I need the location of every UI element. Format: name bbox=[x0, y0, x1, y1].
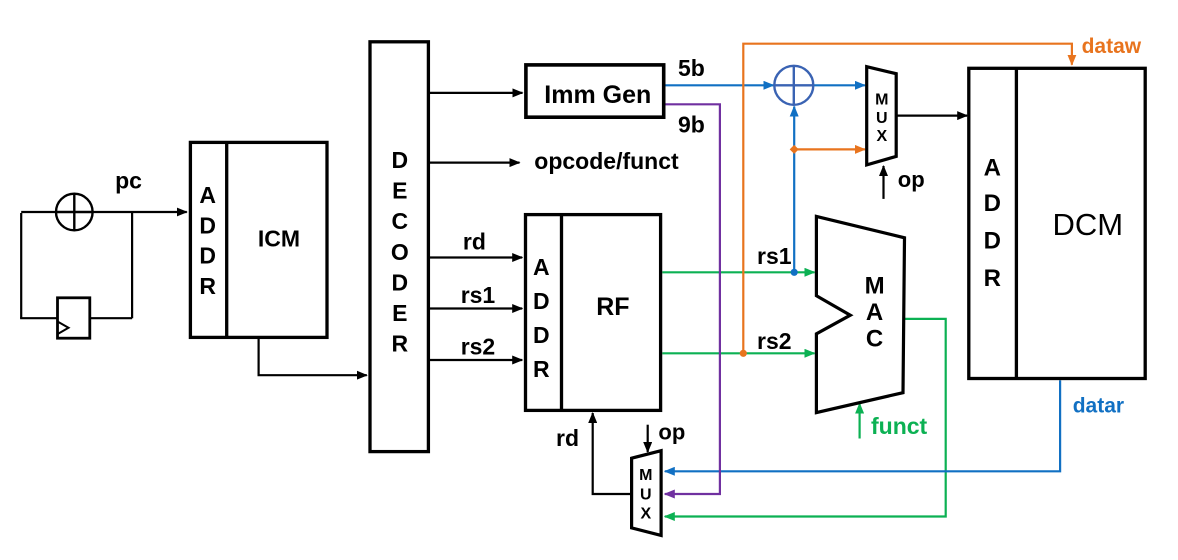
svg-text:E: E bbox=[392, 300, 407, 326]
svg-text:O: O bbox=[391, 239, 409, 265]
svg-text:D: D bbox=[533, 322, 550, 348]
svg-text:D: D bbox=[199, 212, 216, 238]
svg-text:X: X bbox=[640, 506, 651, 523]
svg-text:M: M bbox=[639, 467, 652, 484]
svg-text:D: D bbox=[984, 190, 1001, 217]
svg-text:9b: 9b bbox=[678, 111, 705, 137]
svg-text:opcode/funct: opcode/funct bbox=[534, 148, 679, 174]
svg-text:dataw: dataw bbox=[1082, 35, 1142, 58]
svg-text:R: R bbox=[199, 273, 216, 299]
svg-text:D: D bbox=[391, 269, 408, 295]
svg-text:C: C bbox=[391, 208, 408, 234]
svg-text:M: M bbox=[875, 92, 888, 109]
svg-text:C: C bbox=[866, 326, 883, 353]
svg-text:rd: rd bbox=[556, 425, 579, 451]
svg-text:M: M bbox=[865, 273, 885, 300]
svg-text:A: A bbox=[866, 299, 883, 326]
svg-text:D: D bbox=[199, 243, 216, 269]
svg-text:E: E bbox=[392, 178, 407, 204]
svg-text:op: op bbox=[898, 167, 925, 192]
svg-text:5b: 5b bbox=[678, 55, 705, 81]
svg-text:R: R bbox=[533, 356, 550, 382]
svg-text:X: X bbox=[876, 128, 887, 145]
svg-text:pc: pc bbox=[115, 168, 142, 194]
svg-text:U: U bbox=[876, 110, 888, 127]
svg-text:rs2: rs2 bbox=[461, 333, 496, 359]
svg-text:op: op bbox=[658, 420, 685, 445]
svg-text:D: D bbox=[984, 228, 1001, 255]
svg-text:D: D bbox=[391, 147, 408, 173]
svg-text:A: A bbox=[533, 254, 550, 280]
svg-text:rs1: rs1 bbox=[461, 282, 496, 308]
svg-text:D: D bbox=[533, 288, 550, 314]
svg-text:A: A bbox=[984, 154, 1001, 181]
svg-text:RF: RF bbox=[596, 293, 629, 321]
svg-text:DCM: DCM bbox=[1052, 207, 1123, 242]
svg-text:datar: datar bbox=[1073, 394, 1124, 417]
svg-text:ICM: ICM bbox=[258, 226, 300, 252]
svg-text:rs1: rs1 bbox=[757, 243, 792, 269]
svg-text:funct: funct bbox=[871, 413, 928, 439]
svg-text:rd: rd bbox=[463, 228, 486, 254]
svg-text:U: U bbox=[640, 486, 652, 503]
svg-text:A: A bbox=[199, 182, 216, 208]
svg-text:R: R bbox=[984, 265, 1001, 292]
svg-text:R: R bbox=[391, 331, 408, 357]
svg-text:Imm Gen: Imm Gen bbox=[544, 81, 651, 109]
svg-text:rs2: rs2 bbox=[757, 328, 792, 354]
